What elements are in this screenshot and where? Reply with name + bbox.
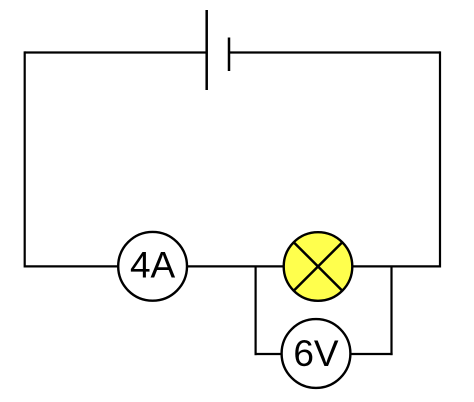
svg-text:4A: 4A (130, 245, 176, 286)
lamp L1 cross stroke 1 (294, 242, 343, 291)
wire bottom-middle segment (188, 265, 284, 267)
battery B1 short plate (228, 38, 231, 72)
wire right side (439, 51, 441, 267)
ammeter A1 circle (118, 232, 187, 301)
lamp L1 circle (284, 232, 353, 301)
wire bottom-right segment (353, 265, 441, 267)
battery B1 long plate (205, 10, 208, 90)
svg-text:6V: 6V (293, 333, 339, 374)
wire voltmeter branch left horizontal (255, 353, 282, 355)
wire left side (24, 51, 26, 267)
wire voltmeter branch right vertical (390, 266, 392, 355)
wire voltmeter branch left vertical (255, 266, 257, 355)
wire voltmeter branch right horizontal (351, 353, 393, 355)
voltmeter V1 circle (282, 319, 351, 388)
lamp L1 cross stroke 2 (294, 242, 343, 291)
wire top-left segment (25, 51, 206, 53)
wire bottom-left segment (25, 265, 118, 267)
wire top-right segment (229, 51, 440, 53)
